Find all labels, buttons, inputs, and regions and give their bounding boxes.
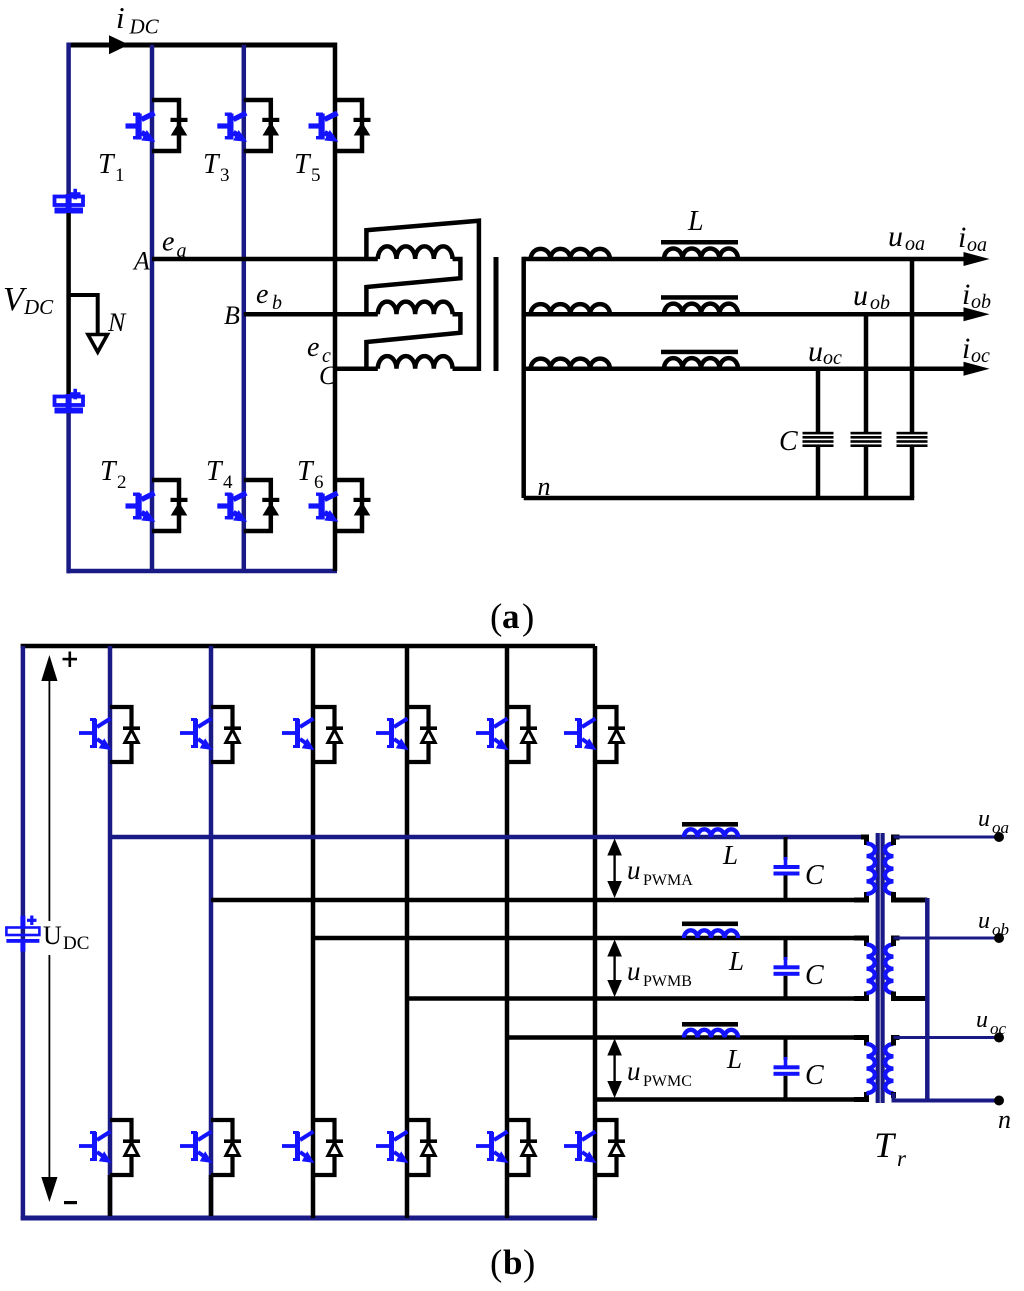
transformer core bar bbox=[494, 257, 499, 371]
capacitor C C bbox=[774, 1038, 800, 1100]
svg-text:2: 2 bbox=[117, 472, 127, 493]
wire: phase C bottom line bbox=[595, 1097, 867, 1102]
svg-text:): ) bbox=[522, 597, 534, 638]
svg-text:e: e bbox=[162, 227, 174, 258]
svg-text:i: i bbox=[962, 278, 970, 311]
terminal dot u_oc bbox=[994, 1033, 1004, 1043]
wire: leg 1 (navy) bbox=[108, 646, 113, 1218]
output arrow i_ob bbox=[964, 307, 990, 321]
svg-text:u: u bbox=[888, 220, 903, 253]
transistor T4 bbox=[217, 480, 279, 531]
wire: left DC rail (navy) bbox=[21, 646, 26, 1218]
wire: phase line B bbox=[244, 312, 378, 317]
wire: leg 5 bbox=[505, 646, 510, 1218]
transistor T6 bbox=[309, 480, 371, 531]
svg-text:DC: DC bbox=[63, 933, 89, 954]
svg-text:PWMC: PWMC bbox=[643, 1073, 692, 1090]
transistor T3 bbox=[217, 100, 279, 151]
svg-text:u: u bbox=[627, 956, 641, 986]
svg-text:L: L bbox=[687, 206, 704, 237]
output arrow i_oa bbox=[964, 252, 990, 266]
wire: neutral n line bbox=[524, 496, 915, 501]
Tr primary A coil bbox=[867, 844, 876, 894]
svg-text:L: L bbox=[728, 946, 744, 976]
transformer primary winding b bbox=[378, 302, 453, 315]
svg-text:oc: oc bbox=[990, 1019, 1007, 1038]
wire: secondary B bottom stub bbox=[894, 992, 928, 999]
transistor S6 top bbox=[564, 707, 625, 762]
capacitor Ca plates bbox=[897, 432, 928, 447]
svg-text:a: a bbox=[502, 597, 520, 636]
svg-text:3: 3 bbox=[220, 165, 230, 186]
transistor S4 top bbox=[376, 707, 437, 762]
svg-text:u: u bbox=[808, 335, 823, 368]
wire: secondary neutral bus (navy) bbox=[925, 898, 930, 1103]
svg-text:T: T bbox=[294, 149, 312, 180]
svg-text:1: 1 bbox=[115, 165, 125, 186]
ground N symbol bbox=[88, 335, 107, 353]
secondary winding a bbox=[531, 249, 610, 259]
Tr secondary B coil bbox=[885, 945, 893, 993]
inductor L phase b bbox=[664, 304, 738, 315]
svg-text:T: T bbox=[206, 456, 224, 487]
inductor L phase A coil bbox=[684, 829, 738, 837]
transistor S2 top bbox=[180, 707, 241, 762]
svg-text:i: i bbox=[116, 0, 125, 35]
capacitor Cc plates bbox=[803, 432, 834, 447]
transistor S6 bottom bbox=[564, 1120, 625, 1175]
capacitor Cb drop wire bbox=[864, 314, 869, 433]
transistor T5 bbox=[309, 100, 371, 151]
inductor L bar A bbox=[682, 822, 738, 827]
svg-text:oc: oc bbox=[823, 347, 842, 369]
Tr primary C stubs bbox=[854, 1038, 867, 1100]
svg-text:B: B bbox=[224, 301, 240, 330]
u_PWMA measurement arrow bbox=[607, 839, 622, 899]
svg-text:oa: oa bbox=[905, 233, 925, 255]
transformer primary winding c bbox=[378, 356, 453, 369]
svg-text:(: ( bbox=[490, 597, 502, 638]
transistor S3 bottom bbox=[282, 1120, 343, 1175]
svg-text:u: u bbox=[853, 279, 868, 312]
wire: bottom DC bus (navy) bbox=[21, 1216, 597, 1221]
svg-text:6: 6 bbox=[314, 472, 324, 493]
svg-text:oc: oc bbox=[971, 345, 990, 367]
arrow i_DC on top bus bbox=[109, 35, 129, 54]
svg-text:DC: DC bbox=[23, 295, 54, 319]
wire: delta link b-c bbox=[366, 314, 460, 369]
transformer primary winding a bbox=[378, 246, 453, 259]
wire: secondary A bottom stub bbox=[894, 893, 928, 900]
svg-text:ob: ob bbox=[870, 292, 890, 314]
wire: secondary B top stub bbox=[894, 938, 900, 999]
svg-text:C: C bbox=[805, 960, 824, 991]
wire: N tap bbox=[69, 295, 98, 334]
wire: secondary A top stub bbox=[894, 837, 900, 900]
svg-text:U: U bbox=[43, 921, 62, 950]
wire: secondary A top to u_oa bbox=[894, 836, 1000, 839]
wire: leg 2 (navy) bbox=[209, 646, 214, 1218]
wire: delta link a-b bbox=[366, 259, 460, 314]
U_DC measurement arrow bbox=[41, 655, 57, 1202]
transistor S4 bottom bbox=[376, 1120, 437, 1175]
wire: phase A top line (navy) bbox=[110, 835, 867, 840]
output arrow i_oc bbox=[964, 362, 990, 376]
wire: leg 4 bbox=[405, 646, 410, 1218]
svg-text:C: C bbox=[805, 860, 824, 891]
svg-text:PWMB: PWMB bbox=[643, 973, 692, 990]
svg-text:a: a bbox=[177, 240, 187, 262]
wire: phase line C bbox=[335, 366, 378, 371]
inductor L phase c bbox=[664, 358, 738, 369]
svg-text:L: L bbox=[726, 1044, 742, 1074]
wire: phase A bottom line bbox=[211, 898, 867, 903]
svg-text:u: u bbox=[976, 1007, 988, 1033]
svg-text:u: u bbox=[627, 1056, 641, 1086]
label minus bbox=[64, 1201, 77, 1204]
transistor S1 top bbox=[79, 707, 140, 762]
transistor S5 top bbox=[476, 707, 537, 762]
u_PWMC measurement arrow bbox=[607, 1039, 622, 1099]
svg-text:oa: oa bbox=[967, 234, 987, 256]
svg-text:n: n bbox=[998, 1105, 1011, 1134]
terminal dot u_ob bbox=[994, 933, 1004, 943]
wire: left DC rail middle (black) bbox=[66, 213, 71, 394]
svg-text:DC: DC bbox=[129, 15, 160, 39]
capacitor Cb plates bbox=[851, 432, 882, 447]
Tr primary B coil bbox=[867, 945, 875, 993]
svg-text:(: ( bbox=[490, 1243, 502, 1284]
wire: secondary B top to u_ob bbox=[894, 937, 1000, 940]
svg-text:T: T bbox=[297, 456, 315, 487]
secondary winding c bbox=[531, 359, 610, 369]
wire: secondary line a bbox=[524, 257, 966, 262]
Tr primary B stubs bbox=[854, 938, 867, 999]
capacitor C A bbox=[774, 837, 800, 900]
terminal dot u_oa bbox=[994, 832, 1004, 842]
wire: leg A (navy) bbox=[150, 45, 155, 571]
inductor L phase B coil bbox=[684, 930, 738, 938]
svg-text:4: 4 bbox=[223, 472, 233, 493]
wire: phase C top line bbox=[507, 1035, 867, 1040]
u_PWMB measurement arrow bbox=[607, 940, 622, 998]
inductor L bar c bbox=[661, 350, 738, 355]
wire: leg 6 bbox=[593, 646, 598, 1218]
wire: secondary C bottom to n bbox=[894, 1093, 1000, 1101]
svg-text:T: T bbox=[100, 456, 118, 487]
svg-text:u: u bbox=[627, 855, 641, 885]
wire: leg C (black) bbox=[333, 43, 338, 572]
transistor T2 bbox=[126, 480, 188, 531]
inductor L bar B bbox=[682, 922, 738, 927]
wire: leg 3 bbox=[311, 646, 316, 1218]
svg-text:ob: ob bbox=[992, 920, 1009, 939]
capacitor C B bbox=[774, 938, 800, 999]
inductor L bar C bbox=[682, 1022, 738, 1027]
svg-text:e: e bbox=[307, 332, 319, 363]
svg-text:T: T bbox=[203, 149, 221, 180]
wire: secondary C top to u_oc bbox=[894, 1036, 1000, 1039]
wire: top DC bus bbox=[67, 43, 336, 48]
wire: secondary line b bbox=[524, 312, 966, 317]
wire: phase line A bbox=[152, 257, 378, 262]
Tr primary C coil bbox=[867, 1044, 875, 1093]
capacitor Ca drop wire bbox=[910, 259, 915, 433]
svg-text:e: e bbox=[256, 279, 268, 310]
wire: bottom bus (navy) bbox=[67, 569, 338, 574]
svg-text:b: b bbox=[503, 1243, 522, 1282]
svg-text:L: L bbox=[722, 840, 738, 870]
svg-text:N: N bbox=[107, 308, 127, 337]
wire: phase B bottom line bbox=[407, 996, 867, 1001]
wire: secondary C top stub bbox=[894, 1038, 900, 1099]
svg-text:ob: ob bbox=[971, 291, 991, 313]
transistor S3 top bbox=[282, 707, 343, 762]
terminal dot n bbox=[994, 1096, 1004, 1106]
inductor L bar b bbox=[661, 295, 738, 300]
svg-text:u: u bbox=[978, 908, 990, 934]
wire: secondary line c bbox=[524, 366, 966, 371]
svg-text:C: C bbox=[805, 1060, 824, 1091]
svg-text:i: i bbox=[958, 221, 966, 254]
svg-text:5: 5 bbox=[311, 165, 321, 186]
svg-text:i: i bbox=[962, 332, 970, 365]
wire: secondary star bus bbox=[521, 257, 526, 498]
Tr secondary C coil bbox=[885, 1044, 893, 1093]
wire: black stub below S2 bottom bbox=[209, 1175, 214, 1216]
svg-text:C: C bbox=[779, 426, 798, 457]
transformer Tr core bbox=[876, 833, 880, 1103]
transistor S5 bottom bbox=[476, 1120, 537, 1175]
wire: left DC rail lower (navy) bbox=[66, 413, 71, 573]
svg-text:T: T bbox=[98, 149, 116, 180]
wire: black stub below S1 bottom bbox=[108, 1175, 113, 1216]
svg-text:PWMA: PWMA bbox=[643, 872, 693, 889]
wire: delta link c-a bbox=[366, 221, 479, 369]
Tr primary A stubs bbox=[854, 837, 867, 900]
svg-text:): ) bbox=[523, 1243, 535, 1284]
wire: phase B top line bbox=[313, 936, 867, 941]
wire: top DC bus bbox=[21, 644, 595, 649]
svg-text:r: r bbox=[897, 1146, 907, 1171]
secondary winding b bbox=[531, 304, 610, 314]
label + bbox=[63, 658, 78, 661]
svg-text:T: T bbox=[874, 1125, 897, 1165]
battery U_DC bbox=[6, 916, 39, 952]
inductor L bar a bbox=[661, 240, 738, 245]
svg-text:n: n bbox=[538, 472, 551, 501]
battery cell upper bbox=[55, 189, 84, 214]
transistor S2 bottom bbox=[180, 1120, 241, 1175]
svg-text:oa: oa bbox=[992, 818, 1009, 837]
Tr secondary A coil bbox=[885, 844, 894, 894]
transistor S1 bottom bbox=[79, 1120, 140, 1175]
wire: leg B (navy) bbox=[242, 45, 247, 571]
capacitor Cc drop wire bbox=[816, 369, 821, 433]
svg-text:b: b bbox=[272, 292, 282, 314]
svg-text:c: c bbox=[322, 345, 331, 367]
svg-text:A: A bbox=[132, 247, 150, 276]
inductor L phase C coil bbox=[684, 1030, 738, 1038]
battery cell lower bbox=[55, 389, 84, 414]
svg-text:u: u bbox=[978, 806, 990, 832]
inductor L phase a bbox=[664, 248, 738, 259]
transistor T1 bbox=[126, 100, 188, 151]
wire: left DC rail upper (navy) bbox=[66, 43, 71, 197]
